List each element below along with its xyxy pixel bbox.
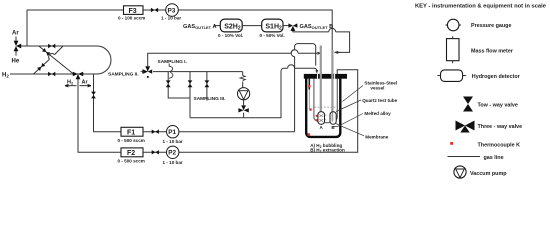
svg-text:SAMPLING I.: SAMPLING I. [158,59,187,65]
wire Ar stub [15,37,17,43]
vacuum pump [238,88,250,100]
svg-text:KEY - instrumentation & equipm: KEY - instrumentation & equipment not in… [415,4,547,10]
zigzag flex connector [240,76,245,81]
wire He stub [15,50,17,56]
arrow small right under Ar [80,84,92,87]
wire hop arc on diagonal 2 [49,54,55,60]
mass flow meter F2 [118,148,145,164]
membrane element B [330,112,336,125]
pointer to vessel wall [343,86,364,102]
wire riser294 from P1 with hop over arrow line [295,44,316,132]
svg-text:0 - 500 sccm: 0 - 500 sccm [118,158,145,163]
thermocouple red dot 2 [309,108,311,110]
valve drop 3 [205,80,210,87]
wire hop on riser294 over arrow line [291,50,294,57]
mass flow meter F1 [118,127,145,143]
wire S2H2 to S1H2 [242,25,262,27]
wire riser x93.5 to F1 row [94,74,122,132]
tube A gray [320,46,322,121]
arrow into tube B [335,51,341,53]
svg-text:P2: P2 [168,150,176,157]
wire S1H2 to valve [283,25,288,27]
wire pump branch down [242,72,244,88]
three-way valve below pump [238,105,248,112]
key pressure gauge symbol [446,19,461,31]
wire hop over P3 descent [329,28,336,31]
svg-text:vessel: vessel [370,85,384,90]
svg-text:Pressure gauge: Pressure gauge [471,23,511,29]
sampling I curl port [169,64,173,79]
pointer to quartz tube [336,100,361,112]
wire drop 2 [189,72,191,118]
svg-text:SAMPLING III.: SAMPLING III. [194,96,226,102]
svg-text:GASOUTLET B: GASOUTLET B [300,24,334,30]
arrow into sampling valve [141,70,147,73]
thermocouple red dot vessel bottom [308,133,311,136]
vessel flange lid [304,74,347,79]
valve after F2 [152,150,159,154]
valve after F3 [151,8,158,12]
valve after F1 [152,130,159,134]
svg-text:He: He [12,59,20,65]
wire sampling manifold line [153,71,243,73]
wire pump to valve [243,100,245,118]
wire H2 line [10,73,97,75]
arrow into tube A [317,52,321,55]
wire bottom path to vessel left [190,68,317,118]
key thermocouple red dot [450,142,453,145]
svg-text:1 - 10 bar: 1 - 10 bar [161,16,181,21]
svg-text:GASOUTLET A: GASOUTLET A [183,24,217,30]
svg-text:1 - 10 bar: 1 - 10 bar [163,139,183,144]
wire riser x78 to F2 row [78,77,121,152]
wire sampling valve riser and arrow line to tube A [148,53,317,66]
valve on diagonal 2 [37,63,45,71]
wire drop 3 [206,72,208,101]
key three-way valve symbol [456,121,475,133]
valve drop 1 [166,80,171,87]
svg-text:H2: H2 [2,73,9,79]
three-way valve Ar/He select [14,41,22,51]
wire gas outlet B loop to tube B [293,31,350,52]
three-way valve sampling [143,66,152,78]
svg-text:0 - 50% Vol.: 0 - 50% Vol. [260,33,285,38]
mass flow meter F3 [118,6,145,21]
wire P1 to riser [179,131,295,133]
key hydrogen detector symbol [437,70,466,82]
valve on H2 line [48,72,55,76]
svg-text:Vaccum pump: Vaccum pump [470,171,507,177]
hydrogen detector S1H2 [260,19,285,38]
svg-text:Quartz test tube: Quartz test tube [362,98,397,103]
three-way valve gas outlet B [288,23,297,31]
key gas line symbol [448,156,481,158]
key mass flow meter symbol [447,36,460,63]
hydrogen detector S2H2 [218,19,243,38]
svg-text:Tow - way valve: Tow - way valve [478,102,518,108]
svg-text:Mass flow meter: Mass flow meter [471,49,514,55]
wire hop on vessel line over riser294 [288,65,295,69]
wire F2 to valve to P2 [143,151,167,153]
svg-text:Hydrogen detector: Hydrogen detector [472,74,521,80]
key two-way valve symbol [463,97,473,112]
wire P2 around vessel to flange right [179,70,358,153]
three-way valve H2/Ar mix [73,72,83,79]
tube B gray [331,50,333,121]
svg-text:gas line: gas line [484,155,504,161]
thermocouple rod [308,79,310,90]
svg-text:P3: P3 [168,7,176,14]
melted alloy element A [316,112,327,125]
pointer to membrane [336,124,364,136]
valve on Ar/He line [48,44,55,48]
svg-text:F1: F1 [127,130,135,137]
wire top F3 line [27,10,124,46]
valve on riser x93.5 [91,92,96,99]
wire F3 to valve to P3 [143,9,166,11]
svg-text:S1H2: S1H2 [265,23,282,31]
stainless steel vessel walls [306,79,340,137]
svg-text:S2H2: S2H2 [224,23,241,31]
pointer to melted alloy [333,114,364,127]
wire drop 1 [168,72,190,98]
arrow small left under H2 [65,84,77,87]
thermocouple red dot 1 [308,85,310,87]
svg-text:1 - 10 bar: 1 - 10 bar [163,160,183,165]
svg-text:SAMPLING II.: SAMPLING II. [108,72,139,78]
wire diagonal 1 [39,46,74,74]
svg-text:F3: F3 [129,8,137,15]
wire P3 to right descent [178,10,332,50]
pressure gauge P3 [161,4,181,21]
wire hop on arrow line over riser294 [291,50,298,53]
wire capsule arc [97,46,111,74]
valve on diagonal 1 [42,48,50,56]
svg-text:F2: F2 [127,150,135,157]
key vacuum pump symbol [454,166,466,178]
wire to S2H2 [214,25,220,27]
svg-text:Three - way valve: Three - way valve [478,124,523,130]
svg-text:Melted alloy: Melted alloy [364,111,391,116]
svg-text:Ar: Ar [12,31,19,37]
svg-text:P1: P1 [168,129,176,136]
wire F1 to valve to P1 [143,131,167,133]
wire diagonal 2 with hop [34,46,64,74]
svg-text:Thermocouple K: Thermocouple K [478,142,521,148]
melt level dashed line [315,106,337,108]
svg-text:0 - 100 sccm: 0 - 100 sccm [118,16,145,21]
pressure gauge P2 [163,146,183,165]
valve drop 2 [188,80,193,87]
svg-text:0 - 500 sccm: 0 - 500 sccm [118,138,145,143]
svg-text:Membrane: Membrane [365,135,388,140]
wire Ar/He line [20,45,97,47]
svg-text:0 - 10% Vol.: 0 - 10% Vol. [218,33,243,38]
quartz test tube [314,79,337,123]
pressure gauge P1 [163,126,183,145]
